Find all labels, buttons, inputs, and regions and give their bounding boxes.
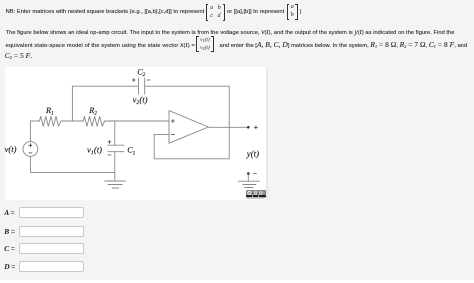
svg-text:v(t): v(t) — [5, 144, 17, 154]
wire right vertical (top rail / output / feedback) — [228, 86, 230, 159]
wire C1 branch down — [114, 121, 116, 145]
svg-text:R2: R2 — [88, 106, 97, 117]
paragraph line 1 — [6, 27, 455, 36]
voltage source V — [23, 142, 38, 157]
C2 - polarity — [147, 79, 150, 81]
op-amp + input marker — [171, 119, 174, 122]
wire bottom rail — [30, 171, 114, 173]
wire top rail right of C2 — [145, 85, 230, 87]
answer row B — [4, 227, 15, 236]
op-amp U1 — [169, 111, 209, 144]
source - polarity — [29, 152, 32, 154]
ground (output) — [238, 181, 259, 187]
matrix [a b; c d] — [206, 4, 226, 21]
svg-text:R1: R1 — [45, 106, 54, 117]
op-amp - input marker — [171, 133, 174, 135]
wire source top to main rail — [29, 121, 31, 142]
wire R1 to R2 — [61, 120, 83, 122]
wire R2 to op-amp + input — [105, 120, 169, 122]
wire top rail left of C2 — [72, 85, 138, 87]
svg-text:C2: C2 — [137, 67, 145, 78]
svg-text:y(t): y(t) — [246, 148, 259, 158]
paragraph line 2 — [6, 40, 195, 49]
matrix [v1(t); v2(t)] — [196, 36, 214, 52]
output + label — [254, 126, 257, 129]
matrix [a; b] — [287, 4, 298, 20]
node output + terminal — [247, 126, 250, 129]
resistor R2 — [83, 116, 105, 126]
white figure panel — [5, 67, 266, 200]
paragraph line 3 — [5, 51, 32, 60]
wire op-amp output — [209, 126, 249, 128]
answer row A — [4, 208, 14, 217]
top instruction line — [6, 9, 205, 15]
svg-text:v2(t): v2(t) — [133, 94, 148, 106]
answer row D — [4, 262, 15, 271]
wire source bottom to bottom rail — [29, 156, 31, 172]
ground (main) — [105, 181, 126, 188]
badge/barcode — [246, 190, 266, 199]
source + polarity — [29, 144, 32, 147]
answer row C — [4, 244, 15, 253]
svg-text:C1: C1 — [127, 146, 135, 157]
wire output lower terminal stub — [247, 175, 249, 182]
C2 + polarity — [132, 79, 135, 82]
resistor R1 — [40, 116, 62, 126]
C1 - polarity — [108, 154, 111, 156]
C1 + polarity — [108, 140, 111, 143]
wire node A up to top rail — [71, 86, 73, 121]
wire main to R1 — [30, 120, 39, 122]
node output - terminal — [247, 172, 250, 175]
capacitor C2 — [139, 78, 145, 94]
svg-text:v1(t): v1(t) — [87, 144, 102, 156]
capacitor C1 — [108, 145, 124, 152]
wire C1 bottom to ground — [114, 152, 116, 181]
output - label — [254, 173, 257, 175]
wire feedback from inverting input — [154, 134, 229, 158]
